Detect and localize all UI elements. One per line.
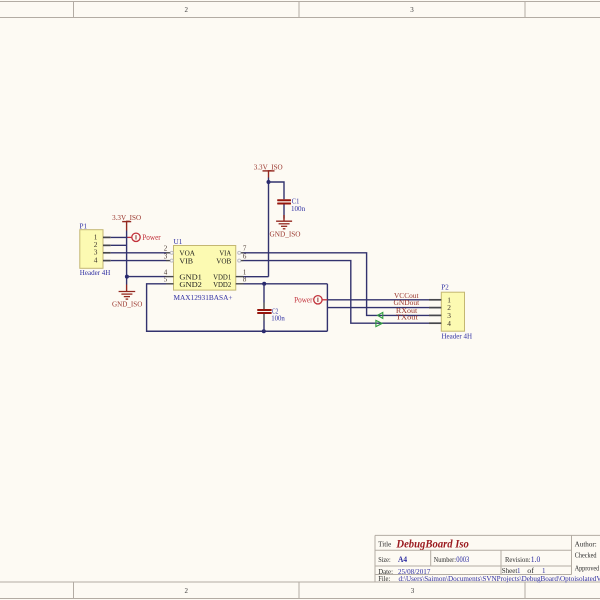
svg-text:VDD2: VDD2 — [213, 280, 231, 289]
svg-text:3: 3 — [411, 587, 415, 595]
junction dot GND rail — [125, 275, 129, 279]
power port Power at P1 — [128, 233, 161, 242]
wire GND1 to U1 pin 4 — [127, 276, 166, 278]
svg-text:Title: Title — [378, 541, 391, 549]
svg-text:Size:: Size: — [378, 556, 391, 564]
svg-text:GND_ISO: GND_ISO — [270, 229, 301, 238]
IC U1 body — [174, 246, 236, 291]
wire C1 bottom — [283, 205, 285, 219]
U1 pin numbers — [164, 244, 247, 283]
svg-text:Header 4H: Header 4H — [80, 269, 111, 277]
ground symbol GND_ISO at P1 — [119, 285, 136, 300]
svg-text:U1: U1 — [174, 238, 183, 246]
power port Power at P2 — [294, 295, 327, 304]
title block — [375, 535, 600, 582]
svg-text:TXout: TXout — [396, 313, 418, 321]
P1 pin stubs — [103, 237, 111, 260]
svg-text:4: 4 — [94, 256, 98, 265]
svg-text:Power: Power — [294, 295, 313, 304]
svg-text:Sheet: Sheet — [502, 567, 518, 575]
svg-text:Checked: Checked — [575, 552, 597, 560]
capacitor C2 leads — [263, 284, 265, 331]
svg-text:3.3V_ISO: 3.3V_ISO — [112, 213, 141, 222]
wire vertical x=327.4 VDD2 to GND corner — [326, 284, 328, 331]
U1 pin names — [179, 248, 231, 289]
wire power rail vertical at x=126.6 — [126, 231, 128, 285]
P2 pin stubs — [429, 300, 441, 323]
svg-text:Header 4H: Header 4H — [442, 333, 473, 341]
svg-text:d:\Users\Saimon\Documents\SVNP: d:\Users\Saimon\Documents\SVNProjects\De… — [399, 575, 600, 583]
svg-text:100n: 100n — [271, 314, 285, 323]
junction dot C2 top — [262, 282, 266, 286]
svg-text:MAX12931BASA+: MAX12931BASA+ — [174, 293, 233, 302]
svg-text:P2: P2 — [441, 284, 449, 292]
wire P1 pin1 to power port — [111, 236, 128, 238]
wire U1 VDD2 horizontal — [244, 283, 328, 285]
svg-text:Number:: Number: — [434, 556, 456, 564]
svg-text:1: 1 — [517, 567, 521, 575]
wire to C1 top — [269, 182, 285, 199]
svg-text:2: 2 — [164, 244, 168, 252]
U1 pin stubs — [166, 253, 244, 284]
P1 pin numbers — [94, 232, 98, 264]
svg-text:3: 3 — [164, 252, 168, 260]
junction dot 3.3V_ISO / C1 — [267, 180, 271, 184]
wire U1 VIA to RXout — [244, 253, 430, 316]
svg-text:7: 7 — [243, 244, 247, 252]
svg-text:3: 3 — [410, 6, 414, 14]
svg-text:P1: P1 — [80, 222, 88, 230]
svg-text:Revision:: Revision: — [505, 556, 531, 564]
port arrow RXout — [377, 312, 382, 318]
svg-text:VOB: VOB — [216, 256, 231, 265]
capacitor C1 — [277, 199, 291, 204]
connector P1 body — [80, 230, 103, 269]
svg-text:GND2: GND2 — [179, 280, 202, 289]
svg-text:GND_ISO: GND_ISO — [112, 299, 143, 308]
power symbol 3.3V_ISO at P1 — [112, 213, 141, 230]
svg-text:1.0: 1.0 — [531, 555, 541, 564]
wire P1 pin2 to rail — [111, 244, 127, 246]
svg-text:3.3V_ISO: 3.3V_ISO — [254, 162, 283, 171]
svg-text:Author:: Author: — [575, 541, 597, 549]
U1 pin bubbles VOA VIB VIA VOB — [170, 251, 240, 262]
capacitor C2 — [257, 309, 272, 314]
svg-text:A4: A4 — [398, 555, 407, 564]
wire U1 VOB to TXout — [244, 261, 430, 324]
svg-text:5: 5 — [164, 275, 168, 283]
svg-text:of: of — [527, 567, 534, 575]
svg-text:4: 4 — [447, 319, 451, 328]
wire P1 pin3 to U1 VOA — [111, 252, 166, 254]
wire P1 pin4 to U1 VIB — [111, 260, 166, 262]
svg-text:100n: 100n — [291, 204, 305, 213]
junction dot C2 bottom — [262, 329, 266, 333]
svg-text:Approved: Approved — [575, 564, 600, 572]
svg-text:DebugBoard Iso: DebugBoard Iso — [395, 538, 469, 550]
svg-text:0003: 0003 — [456, 555, 469, 564]
ground symbol GND_ISO at C1 — [276, 215, 292, 229]
svg-text:File:: File: — [378, 575, 390, 583]
svg-text:1: 1 — [542, 567, 546, 575]
port arrow TXout — [376, 320, 382, 326]
wire U1 VDD1 to 3.3V rail — [244, 276, 269, 278]
power symbol 3.3V_ISO at C1 — [254, 162, 283, 177]
P2 pin numbers — [447, 295, 451, 327]
wire GNDout — [327, 307, 429, 309]
connector P2 body — [441, 292, 464, 331]
svg-text:2: 2 — [185, 6, 189, 14]
wire GND2 loop — [147, 284, 328, 331]
svg-text:VIB: VIB — [179, 256, 193, 265]
wire VDD1 vertical x=268.5 — [268, 178, 270, 277]
svg-text:2: 2 — [185, 587, 189, 595]
wire VCCout — [327, 299, 429, 301]
svg-text:Power: Power — [142, 233, 161, 242]
